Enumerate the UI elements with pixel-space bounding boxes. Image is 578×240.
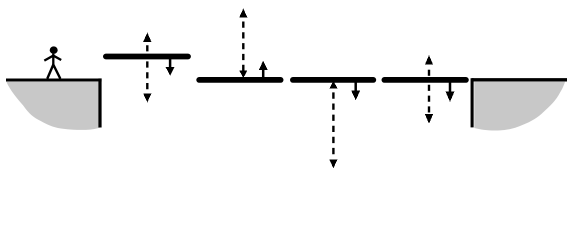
left cliff gray slope (6, 82, 100, 130)
velocity arrow S3 (up) (259, 61, 268, 80)
body (52, 54, 54, 65)
right cliff top edge (472, 78, 567, 81)
velocity arrow S2 (down) (166, 58, 175, 76)
platform bar 2 (106, 54, 188, 60)
velocity arrow S4 (down) (351, 81, 360, 100)
right cliff gray slope (474, 82, 565, 131)
arms (44, 56, 61, 61)
velocity arrow S5 (down) (446, 81, 455, 102)
dashed range arrow A3 (239, 9, 247, 79)
left cliff top edge (6, 78, 102, 81)
legs (47, 65, 60, 79)
dashed range arrow A2 (143, 33, 151, 103)
platform bar 3 (199, 77, 280, 83)
dashed range arrow A5 (425, 55, 433, 124)
platform bar 5 (384, 77, 466, 83)
head (50, 46, 58, 53)
dashed range arrow A4 (329, 81, 337, 169)
stick figure (44, 46, 61, 78)
left cliff right vertical edge (98, 78, 101, 127)
platform bar 4 (293, 77, 373, 83)
right cliff left vertical edge (471, 78, 474, 127)
